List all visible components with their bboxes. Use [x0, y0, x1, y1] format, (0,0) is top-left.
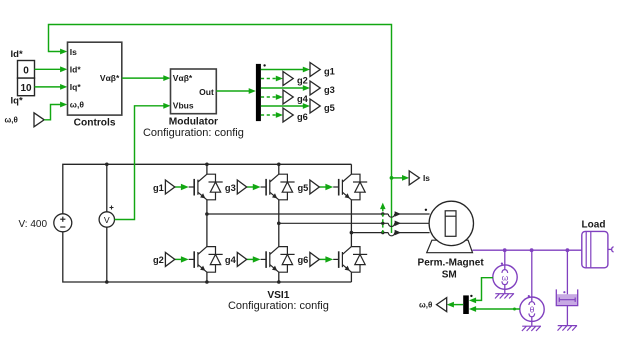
subsystem block Controls [68, 42, 122, 128]
signal-goto tag g3 [310, 81, 335, 95]
svg-text:ω: ω [502, 272, 509, 282]
label Load [582, 220, 606, 231]
signal-goto tag g4 [283, 90, 309, 104]
svg-text:g3: g3 [324, 85, 335, 95]
signal-from tag g6 [298, 252, 320, 266]
subsystem block Modulator [169, 69, 218, 128]
current probe pickup (dashed) [380, 203, 386, 233]
wire: phase c output with crossover hop and ammeter arrow [350, 230, 430, 236]
rotational angle sensor θ [520, 250, 544, 326]
signal-from tag g5 [298, 180, 320, 194]
marker dot θ sensor [528, 295, 530, 297]
svg-text:g2: g2 [297, 76, 308, 86]
signal-from tag g1 [153, 180, 175, 194]
wire: phase b output with crossover hop and ammeter arrow [277, 221, 430, 227]
svg-text:θ: θ [530, 305, 535, 315]
load block (inertia) [582, 231, 614, 267]
svg-text:g5: g5 [298, 183, 309, 193]
signal-from tag ω,θ (left) [5, 113, 45, 127]
wire: demux to gate tag g2 [261, 76, 283, 82]
wire: gate tag g1 to Q1 gate [175, 184, 189, 190]
wire: ω sensor to mux [469, 278, 493, 304]
svg-text:Controls: Controls [74, 118, 116, 129]
svg-text:Is: Is [423, 173, 430, 183]
wire: junction to Is tag [390, 175, 410, 181]
label Configuration: config (VSI1) [228, 300, 329, 312]
signal-goto tag g6 [283, 108, 308, 122]
signal-from tag g3 [225, 180, 247, 194]
svg-text:Configuration: config: Configuration: config [143, 127, 244, 139]
svg-text:g1: g1 [324, 67, 335, 77]
wire: θ sensor to mux [469, 306, 520, 312]
svg-text:Load: Load [582, 220, 606, 231]
transistor Q6 (IGBT with antiparallel diode, gate g6) [333, 247, 367, 273]
wire: leg 2 segments [277, 163, 281, 284]
wire: gate tag g5 to Q5 gate [319, 184, 333, 190]
svg-text:ω,θ: ω,θ [419, 301, 432, 310]
label Perm.-Magnet SM [418, 257, 485, 280]
constant block value 0 (Id*) [18, 61, 35, 79]
svg-text:Modulator: Modulator [169, 117, 218, 128]
transistor Q4 (IGBT with antiparallel diode, gate g4) [261, 247, 295, 273]
signal-from tag g4 [225, 252, 247, 266]
wire: gate tag g2 to Q2 gate [175, 256, 189, 262]
DC voltage source V:400 [54, 214, 72, 232]
rotational speed sensor ω [493, 250, 517, 294]
svg-text:V: 400: V: 400 [19, 219, 48, 230]
signal-from tag g2 [153, 252, 175, 266]
svg-text:g4: g4 [225, 255, 237, 265]
transistor Q5 (IGBT with antiparallel diode, gate g5) [333, 174, 367, 200]
svg-text:Id*: Id* [70, 64, 82, 74]
marker dot mux first input [470, 295, 472, 297]
svg-text:g6: g6 [298, 255, 309, 265]
constant block value 10 (Iq*) [18, 78, 35, 96]
rotational damper D1 [556, 250, 577, 325]
wire: voltmeter to Modulator.Vbus [115, 103, 171, 220]
ground (rotational) under damper [558, 326, 578, 331]
signal-goto tag Is [409, 171, 430, 185]
marker dot machine phase-a terminal [425, 209, 427, 211]
svg-text:Vbus: Vbus [173, 101, 194, 111]
signal-goto tag g5 [310, 99, 335, 113]
marker dot damper [563, 291, 565, 293]
wire: gate tag g6 to Q6 gate [319, 256, 333, 262]
svg-text:Vαβ*: Vαβ* [173, 73, 193, 83]
wire: Controls.Vαβ* to Modulator [122, 75, 171, 81]
wire: Is feedback from current probe to Controls.Is [49, 25, 392, 178]
svg-text:Iq*: Iq* [11, 96, 23, 107]
svg-text:Iq*: Iq* [70, 82, 82, 92]
wire: leg 1 segments [205, 163, 209, 284]
demux (1 to 6) [256, 64, 261, 121]
svg-text:g6: g6 [297, 112, 308, 122]
machine Perm.-Magnet SM body [429, 201, 473, 245]
voltmeter Vm [99, 206, 114, 228]
label Id* [11, 49, 23, 60]
marker dot demux first output [263, 64, 265, 66]
svg-text:g2: g2 [153, 255, 164, 265]
machine Perm.-Magnet SM pedestal [427, 240, 473, 253]
label Configuration: config (Modulator) [143, 127, 244, 139]
wire: gate tag g4 to Q4 gate [247, 256, 261, 262]
wire: rotational shaft bus (machine to load) [473, 248, 582, 252]
svg-text:g4: g4 [297, 94, 309, 104]
wire: leg 3 segments [350, 164, 352, 282]
wire: demux to gate tag g5 [261, 103, 310, 109]
signal-goto tag g1 [310, 63, 335, 77]
wire: demux to gate tag g6 [261, 112, 283, 118]
wire: phase a output with crossover hop and ammeter arrow [205, 211, 430, 217]
svg-text:10: 10 [20, 83, 32, 94]
svg-text:V: V [104, 215, 110, 225]
svg-text:ω,θ: ω,θ [70, 100, 85, 110]
ground (rotational) under θ sensor [522, 326, 541, 331]
label Iq* [11, 96, 23, 107]
svg-text:SM: SM [442, 270, 457, 281]
transistor Q3 (IGBT with antiparallel diode, gate g3) [261, 174, 295, 200]
label V: 400 [19, 219, 48, 230]
svg-text:0: 0 [23, 66, 29, 77]
signal-goto tag g2 [283, 72, 308, 86]
wire: probe signal down right side [391, 178, 393, 233]
svg-text:g1: g1 [153, 183, 164, 193]
wire: demux to gate tag g4 [261, 94, 283, 100]
signal-goto tag ω,θ (right) [419, 298, 447, 312]
wire: demux to gate tag g3 [261, 85, 310, 91]
mux (ω,θ combine) [463, 295, 469, 314]
transistor Q1 (IGBT with antiparallel diode, gate g1) [189, 174, 223, 200]
wire: constant 0 to Controls.Id* [35, 66, 68, 72]
svg-text:Perm.-Magnet: Perm.-Magnet [418, 257, 485, 268]
wire: Modulator.Out to demux [216, 88, 256, 94]
ground (rotational) under ω sensor [495, 294, 514, 299]
label VSI1 [267, 290, 289, 301]
svg-text:g3: g3 [225, 183, 236, 193]
svg-text:g5: g5 [324, 103, 335, 113]
wire: gate tag g3 to Q3 gate [247, 184, 261, 190]
svg-text:Id*: Id* [11, 49, 23, 60]
wire: constant 10 to Controls.Iq* [35, 84, 68, 90]
svg-text:ω,θ: ω,θ [5, 116, 18, 125]
wire: mux to ω,θ goto tag [447, 302, 464, 308]
svg-text:Out: Out [199, 87, 214, 97]
marker dot ω sensor [501, 263, 503, 265]
wire: demux to gate tag g1 [261, 67, 310, 73]
svg-text:Configuration: config: Configuration: config [228, 300, 329, 312]
transistor Q2 (IGBT with antiparallel diode, gate g2) [189, 247, 223, 273]
svg-text:Vαβ*: Vαβ* [100, 73, 120, 83]
voltmeter Vm leg [105, 163, 109, 284]
VSI DC bus rails and left leg [63, 164, 352, 282]
svg-text:Is: Is [70, 47, 77, 57]
wire: ω,θ tag to Controls input [44, 102, 67, 120]
